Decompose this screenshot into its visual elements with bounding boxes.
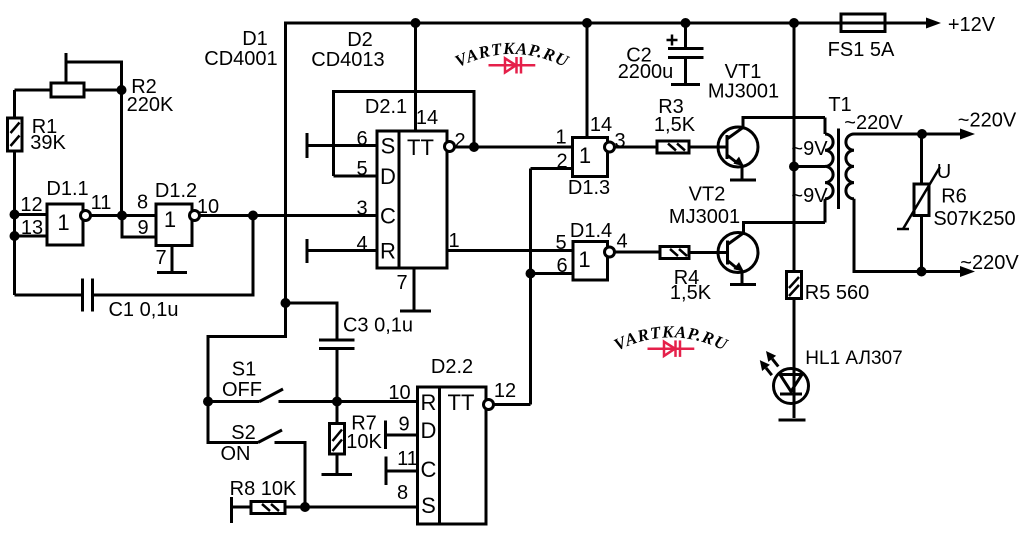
svg-text:C3 0,1u: C3 0,1u xyxy=(343,315,413,337)
svg-text:R6: R6 xyxy=(941,186,967,208)
svg-text:5: 5 xyxy=(555,232,566,254)
svg-text:12: 12 xyxy=(494,380,516,402)
svg-text:4: 4 xyxy=(616,231,627,253)
svg-text:R5 560: R5 560 xyxy=(805,282,870,304)
svg-text:D2.2: D2.2 xyxy=(431,356,473,378)
svg-text:1,5K: 1,5K xyxy=(654,114,696,136)
svg-text:14: 14 xyxy=(590,114,612,136)
svg-text:R8 10K: R8 10K xyxy=(230,478,297,500)
svg-text:8: 8 xyxy=(137,192,148,214)
svg-text:TT: TT xyxy=(407,135,434,160)
svg-text:U: U xyxy=(937,161,951,183)
svg-text:S: S xyxy=(421,493,436,518)
svg-text:VT2: VT2 xyxy=(689,184,726,206)
svg-text:2: 2 xyxy=(556,151,567,173)
svg-text:~220V: ~220V xyxy=(958,110,1017,132)
svg-text:11: 11 xyxy=(397,448,418,470)
svg-text:C1 0,1u: C1 0,1u xyxy=(108,299,178,321)
svg-text:HL1 АЛ307: HL1 АЛ307 xyxy=(805,348,902,369)
svg-text:D2.1: D2.1 xyxy=(365,96,407,118)
svg-text:6: 6 xyxy=(356,128,367,150)
svg-text:C: C xyxy=(421,457,437,482)
svg-text:+12V: +12V xyxy=(948,14,996,36)
svg-text:D: D xyxy=(380,164,396,189)
svg-text:CD4001: CD4001 xyxy=(204,48,277,70)
svg-text:9: 9 xyxy=(137,217,148,239)
svg-text:1: 1 xyxy=(579,143,591,168)
svg-text:4: 4 xyxy=(356,233,367,255)
svg-text:10K: 10K xyxy=(346,431,382,453)
svg-text:OFF: OFF xyxy=(222,379,262,401)
svg-text:220K: 220K xyxy=(127,94,174,116)
svg-text:D1.4: D1.4 xyxy=(570,220,612,242)
svg-text:13: 13 xyxy=(21,217,43,239)
svg-text:D1: D1 xyxy=(242,28,268,50)
svg-text:10: 10 xyxy=(388,382,410,404)
svg-text:D1.2: D1.2 xyxy=(155,180,197,202)
svg-text:11: 11 xyxy=(91,192,112,214)
svg-text:12: 12 xyxy=(20,194,42,216)
svg-text:10: 10 xyxy=(197,196,219,218)
svg-text:7: 7 xyxy=(396,272,407,294)
svg-text:~220V: ~220V xyxy=(844,112,903,134)
svg-text:5: 5 xyxy=(356,158,367,180)
svg-text:S1: S1 xyxy=(232,359,256,381)
svg-text:6: 6 xyxy=(556,255,567,277)
svg-text:C: C xyxy=(380,204,396,229)
svg-text:~220V: ~220V xyxy=(960,252,1019,274)
svg-text:1: 1 xyxy=(448,230,459,252)
svg-text:S2: S2 xyxy=(231,422,255,444)
svg-text:14: 14 xyxy=(416,107,438,129)
svg-text:1: 1 xyxy=(555,127,566,149)
svg-text:~9V: ~9V xyxy=(791,185,828,207)
svg-text:2200u: 2200u xyxy=(618,61,674,83)
svg-text:D1.3: D1.3 xyxy=(568,177,610,199)
svg-text:1: 1 xyxy=(57,210,69,235)
svg-text:2: 2 xyxy=(454,130,465,152)
svg-text:R: R xyxy=(380,239,396,264)
svg-text:1,5K: 1,5K xyxy=(670,282,712,304)
svg-text:R: R xyxy=(421,390,437,415)
svg-text:D: D xyxy=(421,418,437,443)
svg-text:S07K250: S07K250 xyxy=(933,208,1015,230)
svg-text:3: 3 xyxy=(356,198,367,220)
svg-text:FS1 5A: FS1 5A xyxy=(828,39,895,61)
svg-text:7: 7 xyxy=(155,247,166,269)
svg-text:9: 9 xyxy=(398,414,409,436)
svg-text:S: S xyxy=(381,134,396,159)
svg-text:MJ3001: MJ3001 xyxy=(708,81,779,103)
svg-text:CD4013: CD4013 xyxy=(311,49,384,71)
svg-text:MJ3001: MJ3001 xyxy=(669,206,740,228)
svg-text:ON: ON xyxy=(221,443,251,465)
svg-text:~9V: ~9V xyxy=(791,138,828,160)
svg-text:8: 8 xyxy=(397,482,408,504)
svg-text:D2: D2 xyxy=(347,29,373,51)
svg-text:1: 1 xyxy=(164,207,176,232)
svg-text:3: 3 xyxy=(614,130,625,152)
svg-text:TT: TT xyxy=(448,390,475,415)
svg-text:39K: 39K xyxy=(30,132,66,154)
svg-text:D1.1: D1.1 xyxy=(46,178,88,200)
svg-text:1: 1 xyxy=(578,247,590,272)
